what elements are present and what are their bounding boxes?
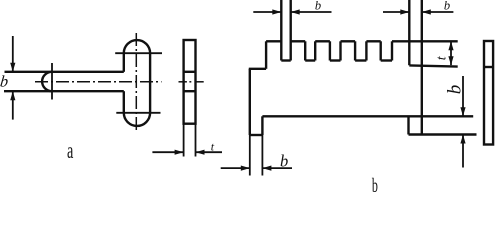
left shoulder bbox=[249, 68, 266, 70]
arrowhead left-pointing bbox=[422, 9, 431, 14]
figure a side view strip bbox=[184, 40, 196, 124]
svg-text:b: b bbox=[0, 73, 9, 90]
tooth5 left edge bbox=[365, 41, 367, 60]
extension line right for t bbox=[195, 124, 197, 157]
gap5 base bbox=[381, 59, 392, 61]
right leg bottom + b extension right bbox=[409, 133, 477, 135]
tooth2 top bbox=[291, 40, 306, 42]
tooth3 right edge bbox=[329, 41, 331, 60]
bottom-left b dimension right tail bbox=[262, 167, 292, 169]
centerline dot inside strip bbox=[189, 81, 191, 83]
tooth5 top bbox=[366, 40, 380, 42]
top-left b dimension left tail bbox=[253, 11, 281, 13]
svg-text:b: b bbox=[372, 175, 378, 192]
left leg bottom bbox=[250, 134, 263, 136]
right b dimension upper tail bbox=[462, 76, 464, 116]
head capsule left edge upper bbox=[123, 53, 125, 72]
tooth1 left edge bbox=[265, 41, 267, 69]
t dim line right tail bbox=[196, 151, 223, 153]
t down arrowhead bbox=[448, 56, 453, 65]
t dim line left tail bbox=[152, 151, 183, 153]
tooth5 right edge bbox=[380, 41, 382, 60]
gap3 base bbox=[330, 59, 341, 61]
arrowhead right-pointing bbox=[400, 9, 409, 14]
b down arrowhead bbox=[460, 107, 465, 116]
arrowhead left-pointing bbox=[262, 166, 271, 171]
extension line left for t bbox=[183, 124, 185, 157]
tooth3 top bbox=[315, 40, 330, 42]
strip inner line at tooth base level bbox=[484, 66, 493, 68]
wire bar bottom edge + extension bbox=[4, 90, 124, 92]
left edge bbox=[249, 69, 251, 135]
top-right b dimension left tail bbox=[383, 11, 409, 13]
vertical centerline of head bbox=[135, 33, 137, 131]
top-right b dimension right tail bbox=[422, 11, 454, 13]
tooth3 left edge bbox=[314, 41, 316, 60]
t dimension line (figure b) bbox=[450, 41, 452, 65]
arrowhead up bbox=[10, 91, 15, 100]
horizontal centerline of bar bbox=[35, 81, 162, 83]
gap2 base bbox=[305, 59, 315, 61]
tooth4 top bbox=[341, 40, 356, 42]
tooth6 left edge bbox=[391, 41, 393, 60]
dimension b upper line bbox=[12, 36, 14, 72]
arrowhead right-pointing bbox=[272, 9, 281, 14]
head capsule left edge lower bbox=[123, 91, 125, 113]
head capsule right edge bbox=[149, 53, 151, 113]
strip inner line bottom bbox=[184, 90, 196, 92]
figure b side view strip bbox=[484, 41, 493, 145]
tooth2 left edge + extension up bbox=[290, 0, 292, 61]
dimension b lower line bbox=[12, 91, 14, 119]
arrowhead down bbox=[10, 63, 15, 72]
right b dimension lower tail bbox=[462, 135, 464, 168]
tooth4 right edge bbox=[354, 41, 356, 60]
svg-text:b: b bbox=[315, 0, 321, 12]
gap1 base bbox=[281, 59, 290, 61]
svg-text:b: b bbox=[444, 85, 465, 95]
svg-text:b: b bbox=[280, 152, 288, 171]
bottom edge of body bbox=[262, 115, 473, 117]
tooth1 right edge + extension up bbox=[280, 0, 282, 61]
top-left b dimension right tail bbox=[291, 11, 332, 13]
centerline tick right bbox=[197, 81, 204, 83]
rounded left end arc bbox=[42, 72, 52, 91]
tooth1 top bbox=[266, 40, 281, 42]
centerline tick left bbox=[179, 81, 187, 83]
t left arrowhead bbox=[175, 150, 184, 155]
svg-text:t: t bbox=[435, 55, 450, 60]
head top cap arc bbox=[124, 40, 150, 53]
slot left edge + extension up bbox=[408, 0, 410, 65]
left leg extension left down bbox=[249, 135, 251, 176]
arrowhead right-pointing bbox=[241, 166, 250, 171]
tooth2 right edge bbox=[304, 41, 306, 60]
svg-text:b: b bbox=[444, 0, 450, 12]
tangent tick top of head bbox=[115, 52, 162, 54]
t right arrowhead bbox=[196, 150, 205, 155]
bottom-left b dimension left tail bbox=[221, 167, 250, 169]
tangent tick bottom of head bbox=[116, 112, 160, 114]
svg-text:a: a bbox=[67, 139, 74, 164]
tooth6 top + extension to right bbox=[392, 40, 458, 42]
left leg right edge bbox=[261, 116, 263, 135]
head bottom cap arc bbox=[124, 113, 150, 126]
right edge + extension up bbox=[421, 0, 423, 135]
right leg left edge bbox=[407, 116, 409, 134]
b up arrowhead bbox=[460, 135, 465, 144]
right shoulder + extension right bbox=[409, 65, 457, 66]
arrowhead left-pointing bbox=[291, 9, 300, 14]
tangent tick at arc bbox=[51, 63, 53, 100]
t up arrowhead bbox=[448, 41, 453, 50]
wire bar top edge + extension bbox=[5, 71, 124, 73]
gap4 base bbox=[355, 59, 366, 61]
tooth4 left edge bbox=[339, 41, 341, 60]
left leg extension right down bbox=[261, 135, 263, 176]
strip inner line top bbox=[184, 71, 196, 73]
